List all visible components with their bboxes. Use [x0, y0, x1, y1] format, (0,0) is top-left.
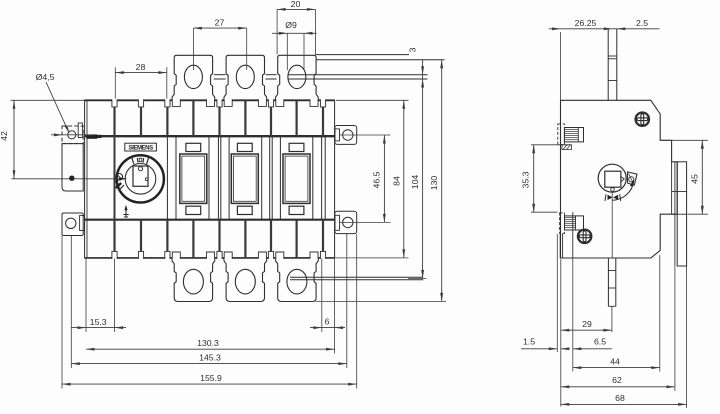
screw top right	[636, 113, 649, 126]
svg-text:29: 29	[582, 319, 592, 329]
fin band bottom edge	[85, 257, 335, 259]
busbar through top lug 3	[289, 74, 428, 76]
side handle hub	[598, 164, 626, 192]
dimension 62	[674, 266, 676, 391]
handle OFF position marks	[116, 174, 123, 181]
dimension 44	[659, 255, 661, 372]
svg-text:6: 6	[325, 317, 330, 327]
dimension 28	[114, 67, 116, 98]
left bottom bracket	[62, 213, 83, 236]
din rail clip bottom	[560, 213, 565, 233]
fin band top edge	[85, 99, 335, 101]
dimension 26.25 and 2.5	[560, 32, 562, 100]
front view: molded case body with cooling-fin bands	[85, 100, 335, 258]
top terminal lug 3	[276, 55, 319, 100]
fin dividers	[113, 100, 115, 136]
left bracket hole centerline	[51, 134, 97, 136]
dimension 145.3	[70, 236, 72, 368]
dimension 84	[336, 99, 409, 101]
top terminal lug 1	[172, 55, 215, 100]
left bracket (phantom position)	[62, 126, 83, 144]
dimension 15.3	[85, 259, 87, 333]
dimension 29	[560, 259, 562, 407]
svg-text:104: 104	[410, 175, 420, 190]
right top bracket	[335, 126, 357, 145]
dimension 45	[661, 139, 708, 141]
side terminal cover wing	[677, 162, 686, 266]
dimension diameter 9	[286, 33, 288, 70]
left bracket top tab	[78, 123, 82, 138]
svg-text:15.3: 15.3	[90, 317, 107, 327]
fixing point dot	[69, 176, 74, 181]
svg-text:Ø4,5: Ø4,5	[36, 72, 55, 82]
svg-text:20: 20	[291, 0, 301, 9]
bottom terminal lug 3	[276, 258, 319, 301]
lug feet tabs	[172, 99, 180, 107]
svg-text:45: 45	[690, 174, 700, 184]
bottom terminal lug 2	[224, 258, 267, 301]
side handle position flag	[628, 172, 638, 185]
svg-text:130.3: 130.3	[197, 338, 219, 348]
side view body outline	[561, 100, 678, 258]
svg-text:28: 28	[136, 62, 146, 72]
pole window 3	[283, 154, 310, 203]
svg-text:84: 84	[391, 176, 401, 186]
dimension 46.5	[383, 135, 385, 222]
handle shaft square	[133, 166, 148, 186]
rail seat hatch top	[562, 145, 572, 150]
dimension 130.3	[86, 348, 335, 350]
bottom terminal lug 1	[172, 258, 215, 301]
dimension 1.5	[556, 234, 558, 352]
busbar through bottom lug 3	[290, 276, 423, 278]
rotation arc with arrow	[612, 181, 634, 200]
svg-text:42: 42	[0, 131, 9, 141]
top busbar upper pair	[316, 54, 410, 56]
pole section partition lines	[166, 136, 168, 220]
svg-text:155.9: 155.9	[200, 373, 222, 383]
dimension 20	[276, 9, 278, 54]
svg-text:44: 44	[610, 356, 620, 366]
dimension 130	[441, 60, 443, 302]
arc ticks	[608, 195, 613, 200]
svg-text:62: 62	[612, 375, 622, 385]
svg-text:1.5: 1.5	[523, 337, 535, 347]
handle ON position ticks	[132, 157, 134, 164]
band notches	[112, 99, 117, 107]
SIEMENS logo label	[125, 143, 157, 151]
dimension 3 busbar thickness	[422, 60, 424, 278]
dimension 35.3	[531, 144, 572, 146]
dimension 68	[686, 266, 688, 408]
svg-text:145.3: 145.3	[199, 353, 221, 363]
front face plate (cover) outline	[85, 135, 335, 137]
svg-text:26.25: 26.25	[575, 18, 597, 28]
right bottom bracket	[335, 211, 357, 233]
svg-text:Ø9: Ø9	[285, 20, 297, 30]
padlock symbol	[125, 208, 127, 217]
svg-text:35.3: 35.3	[521, 171, 531, 188]
bottom shaft	[607, 258, 609, 306]
dimension 42	[11, 99, 85, 101]
dimension 104	[408, 277, 427, 279]
top shaft (extended drive)	[607, 29, 609, 101]
svg-text:27: 27	[215, 17, 225, 27]
right bracket hole centerlines	[340, 134, 391, 136]
svg-text:130: 130	[429, 176, 439, 191]
dimension 27	[192, 28, 194, 70]
svg-text:6.5: 6.5	[594, 337, 606, 347]
screw bottom left	[578, 230, 591, 243]
rotary handle outer ring	[117, 155, 164, 202]
marking on left section	[86, 136, 97, 139]
left bracket plate	[62, 144, 83, 191]
svg-text:2.5: 2.5	[636, 18, 648, 28]
svg-text:46.5: 46.5	[372, 171, 382, 188]
pole window 1	[180, 154, 207, 203]
svg-text:SIEMENS: SIEMENS	[128, 145, 153, 151]
top terminal lug 2	[224, 55, 267, 100]
svg-text:3: 3	[407, 47, 417, 52]
base parting line	[572, 212, 574, 258]
din rail clip top	[558, 124, 565, 144]
dimension 6	[321, 259, 323, 333]
dimension 155.9	[61, 236, 63, 389]
svg-text:68: 68	[615, 393, 625, 403]
rotary handle inner circle	[125, 164, 156, 195]
pole window 2	[231, 154, 258, 203]
device centerline	[12, 178, 123, 180]
handle vertical centerline	[611, 192, 613, 258]
dimension 6.5	[572, 259, 574, 372]
